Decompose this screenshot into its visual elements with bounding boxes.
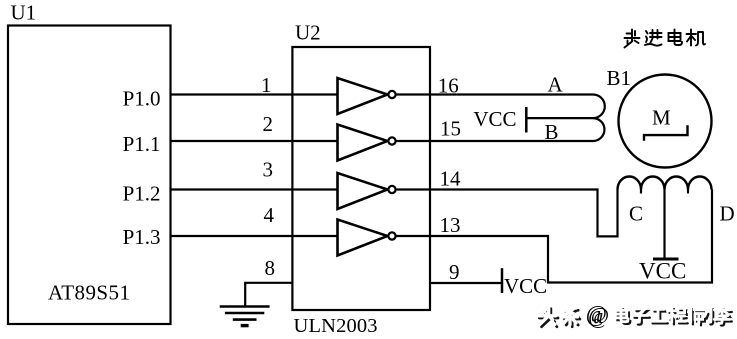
inverter U2C xyxy=(338,173,396,209)
svg-text:C: C xyxy=(629,202,643,226)
VCC bar at C/D tap xyxy=(653,258,679,261)
inverter U2B xyxy=(338,125,396,161)
wire pin 9 to VCC xyxy=(430,282,502,284)
svg-text:P1.1: P1.1 xyxy=(123,132,161,156)
svg-text:U1: U1 xyxy=(11,1,37,25)
svg-text:P1.3: P1.3 xyxy=(123,225,161,249)
wire pin 14 output to winding C xyxy=(396,190,617,237)
winding A end turn (arc) xyxy=(593,95,605,119)
svg-text:VCC: VCC xyxy=(504,274,547,298)
svg-text:4: 4 xyxy=(264,203,275,227)
U2 ULN2003 driver box xyxy=(292,47,430,310)
svg-text:14: 14 xyxy=(440,167,462,191)
svg-text:P1.2: P1.2 xyxy=(123,182,161,206)
wire P1.2 to inverter 3 input xyxy=(170,188,338,190)
svg-text:A: A xyxy=(548,73,564,97)
wire P1.1 to inverter 2 input xyxy=(170,140,338,142)
watermark 头条 @电子工程师小李 xyxy=(537,301,732,328)
wire pin 8 to ground xyxy=(245,283,292,306)
svg-text:B: B xyxy=(545,120,559,144)
svg-text:1: 1 xyxy=(261,73,272,97)
svg-text:3: 3 xyxy=(263,158,274,182)
wire P1.3 to inverter 4 input xyxy=(170,235,338,237)
wire pin 15 output / winding B xyxy=(396,140,593,142)
ground xyxy=(220,307,270,326)
motor underline symbol xyxy=(644,125,688,141)
svg-text:@: @ xyxy=(586,301,607,326)
svg-text:P1.0: P1.0 xyxy=(123,87,161,111)
svg-text:15: 15 xyxy=(440,117,461,141)
svg-text:M: M xyxy=(652,106,671,130)
wire pin 16 output / winding A xyxy=(396,93,593,95)
svg-text:VCC: VCC xyxy=(639,259,686,284)
VCC tap bar for windings A/B xyxy=(525,107,528,133)
wire P1.0 to inverter 1 input xyxy=(170,93,338,95)
winding C-D coil xyxy=(618,177,712,190)
svg-text:9: 9 xyxy=(449,260,460,284)
wire pin 13 output to winding D xyxy=(396,190,712,283)
stepper motor B1 circle xyxy=(619,75,712,168)
wire winding C/D center tap to VCC xyxy=(663,190,665,259)
inverter U2D xyxy=(338,220,396,256)
svg-text:U2: U2 xyxy=(295,21,321,45)
inverter U2A xyxy=(338,78,396,114)
svg-text:8: 8 xyxy=(265,256,276,280)
svg-text:B1: B1 xyxy=(607,66,632,90)
svg-text:AT89S51: AT89S51 xyxy=(48,281,130,305)
winding B end turn (arc) xyxy=(593,118,604,141)
VCC bar at pin 9 xyxy=(501,268,504,293)
svg-text:13: 13 xyxy=(440,213,461,237)
wire winding A/B center to VCC tap xyxy=(526,117,593,119)
svg-text:VCC: VCC xyxy=(473,107,516,131)
title 步进电机 (stepper motor) xyxy=(625,30,706,48)
coil cusp ticks xyxy=(640,190,642,194)
svg-text:D: D xyxy=(720,202,735,226)
U1 AT89S51 microcontroller box xyxy=(8,26,171,325)
svg-text:ULN2003: ULN2003 xyxy=(294,315,378,337)
svg-text:2: 2 xyxy=(263,112,274,136)
